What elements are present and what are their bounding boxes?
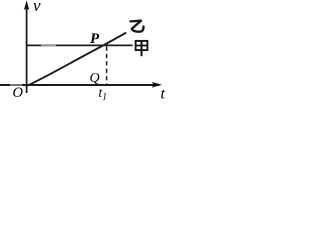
svg-text:Q: Q — [90, 71, 100, 86]
svg-text:t: t — [161, 86, 166, 103]
svg-text:O: O — [13, 85, 24, 101]
svg-text:v: v — [33, 0, 41, 15]
svg-text:P: P — [90, 31, 100, 47]
